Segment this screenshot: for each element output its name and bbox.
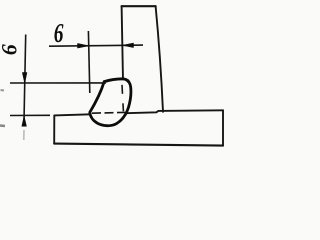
upper extension line	[10, 82, 106, 84]
bottom plate top edge	[54, 110, 223, 115]
hidden plate left edge (dashed inside weld)	[122, 85, 123, 112]
left dimension line	[24, 35, 26, 127]
lower extension line	[10, 114, 50, 116]
svg-text:6: 6	[54, 19, 64, 49]
vertical plate left edge	[122, 6, 123, 80]
bottom plate bottom edge	[54, 144, 223, 146]
top dimension line	[49, 45, 143, 46]
weld bead	[90, 79, 131, 126]
arrow right (top dimension)	[78, 43, 89, 48]
scan speck left edge lower	[0, 124, 5, 127]
arrow down (left dimension)	[22, 73, 27, 84]
vertical plate top edge	[122, 5, 156, 7]
bottom plate right edge	[222, 110, 224, 145]
arrow up (left dimension)	[22, 116, 27, 126]
vertical plate right edge	[156, 6, 163, 112]
hidden plate surface (dashed inside weld)	[92, 111, 125, 114]
bottom plate left edge	[53, 115, 55, 143]
top extension line	[88, 31, 89, 93]
arrow left (top dimension)	[122, 43, 133, 48]
scan speck left edge upper	[1, 89, 5, 92]
svg-text:6: 6	[0, 44, 22, 55]
scan speck below arrow	[23, 130, 25, 140]
